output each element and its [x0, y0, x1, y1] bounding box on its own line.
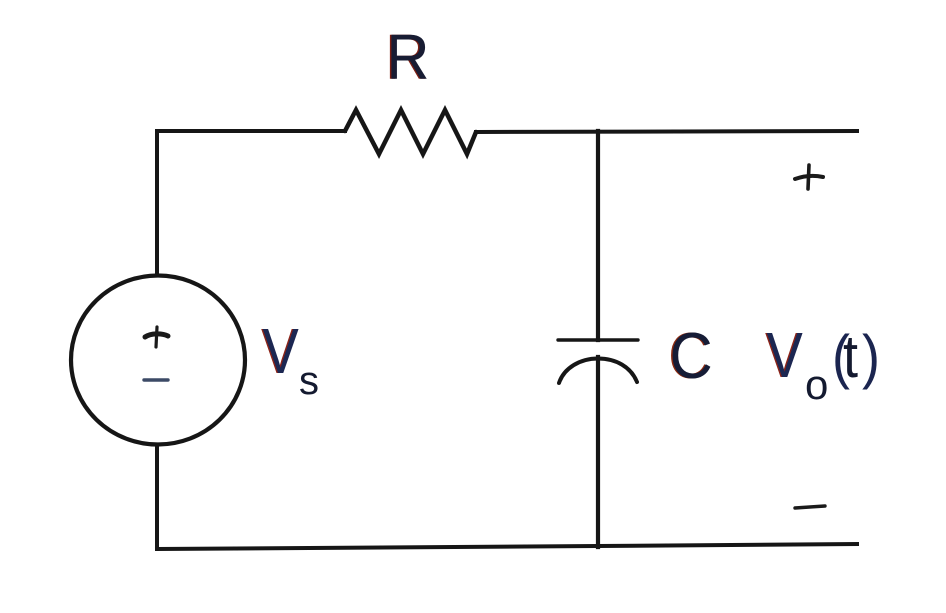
svg-text:V: V: [767, 319, 804, 391]
label R: [385, 22, 429, 93]
minus output polarity mark: [795, 506, 825, 508]
svg-text:): ): [862, 323, 880, 390]
svg-text:s: s: [299, 359, 319, 403]
capacitor C curved bottom plate: [559, 359, 637, 384]
wire: top horizontal from resistor to output node: [476, 131, 857, 132]
plus output polarity mark: [795, 176, 823, 179]
label Vs: [261, 315, 319, 403]
capacitor C top plate: [558, 338, 638, 341]
wire: bottom horizontal: [157, 544, 857, 549]
svg-text:R: R: [387, 22, 430, 93]
plus polarity mark inside source: [145, 334, 168, 337]
svg-text:t: t: [843, 323, 858, 390]
svg-text:o: o: [805, 361, 828, 408]
wire: capacitor branch upper vertical: [596, 131, 600, 340]
wire: left vertical from source bottom to bottom wire: [155, 446, 159, 549]
resistor R (zigzag): [345, 110, 476, 154]
label Vo(t): [765, 319, 880, 408]
minus polarity mark inside source: [144, 378, 168, 381]
wire: left vertical from top wire down to source top: [155, 131, 159, 275]
label C: [668, 320, 713, 393]
wire: capacitor branch lower vertical: [596, 357, 600, 547]
svg-text:V: V: [263, 315, 300, 387]
wire: top-left horizontal from source to resistor: [157, 129, 345, 133]
voltage source Vs (circle): [71, 276, 245, 445]
svg-text:C: C: [670, 320, 713, 393]
